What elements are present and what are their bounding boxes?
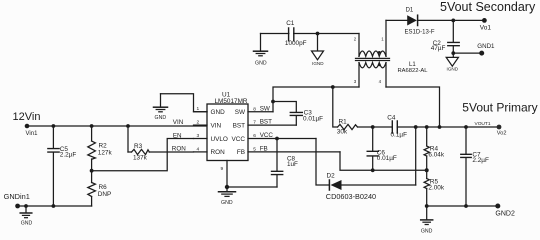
- svg-text:Vo1: Vo1: [480, 24, 492, 31]
- wire primary ground rail: [427, 205, 498, 207]
- svg-text:0.1µF: 0.1µF: [391, 132, 408, 139]
- svg-text:VIN: VIN: [173, 119, 184, 126]
- svg-text:BST: BST: [233, 122, 246, 129]
- ground GND under chip: [219, 187, 236, 206]
- svg-text:GND: GND: [155, 115, 167, 121]
- svg-text:6: 6: [253, 133, 256, 139]
- node Vo2 port: [497, 125, 507, 137]
- junction C2 top: [451, 19, 455, 23]
- wire R1 riser: [333, 87, 338, 127]
- ground GND at input: [20, 206, 32, 227]
- wire EN from UVLO pin to R2/R6 node: [92, 139, 194, 171]
- junction ground symbol tap: [24, 204, 28, 208]
- wire C4 to Vo2: [397, 126, 499, 128]
- ground IGND secondary: [446, 53, 459, 71]
- svg-text:D2: D2: [327, 172, 336, 179]
- capacitor C6 0.01uF: [367, 127, 397, 170]
- resistor R3 137k: [128, 126, 194, 161]
- svg-text:7: 7: [253, 120, 256, 126]
- capacitor C4 0.1uF: [387, 114, 407, 138]
- svg-text:3: 3: [197, 133, 200, 139]
- svg-text:0.01µF: 0.01µF: [377, 155, 397, 162]
- wire D2 anode riser: [415, 127, 417, 185]
- pin 9 pad wire: [221, 161, 228, 188]
- diode D1 ES1D-13-F: [405, 8, 485, 36]
- svg-text:1000pF: 1000pF: [285, 40, 307, 47]
- svg-text:2.2µF: 2.2µF: [60, 151, 77, 158]
- resistor R2 127k: [88, 126, 113, 171]
- svg-text:SW: SW: [235, 109, 246, 116]
- wire input ground rail: [18, 205, 92, 207]
- node GNDin1 port: [4, 192, 30, 208]
- pin 2 VIN stub: [194, 120, 208, 126]
- capacitor C3 0.01uF: [290, 109, 323, 125]
- junction C7 bottom: [464, 204, 468, 208]
- svg-text:4: 4: [197, 146, 200, 152]
- junction D2 riser: [414, 125, 418, 129]
- svg-text:12Vin: 12Vin: [13, 111, 41, 123]
- svg-text:D1: D1: [406, 8, 414, 14]
- wire SW riser to transformer: [273, 87, 359, 112]
- junction C5 bottom: [52, 204, 56, 208]
- svg-text:VCC: VCC: [232, 136, 246, 143]
- node 12Vin port Vin1: [13, 111, 41, 137]
- resistor R1 30k: [337, 118, 358, 135]
- pin 4 RON stub: [194, 146, 208, 152]
- junction C5 top: [52, 124, 56, 128]
- svg-text:GND: GND: [21, 221, 33, 227]
- svg-text:Vo2: Vo2: [497, 131, 507, 137]
- pin 6 VCC stub and label: [248, 132, 316, 139]
- wire transformer pin1 to D1: [386, 19, 407, 21]
- svg-text:0.01µF: 0.01µF: [303, 115, 323, 122]
- junction C6 bottom: [371, 168, 375, 172]
- junction pad/C8 ground node: [225, 185, 229, 189]
- ground GND primary: [421, 206, 433, 234]
- svg-text:127k: 127k: [98, 149, 113, 156]
- junction R3 top: [126, 124, 130, 128]
- capacitor C2 47uF: [431, 20, 460, 53]
- svg-text:BST: BST: [260, 119, 272, 126]
- svg-text:2: 2: [197, 120, 200, 126]
- resistor R4 6.04k: [424, 127, 445, 170]
- svg-text:2: 2: [354, 36, 357, 41]
- wire transformer pin4 to output rail: [386, 87, 440, 127]
- svg-text:IGND: IGND: [312, 61, 324, 66]
- diode D2 CD0603-B0240: [326, 172, 416, 201]
- wire C3 top branch: [273, 102, 296, 113]
- node GND1 port: [477, 43, 495, 56]
- op-amp U1 LM5017MR body: [207, 91, 248, 160]
- svg-text:3: 3: [354, 79, 357, 84]
- svg-text:FB: FB: [237, 149, 245, 156]
- svg-text:VOUT1: VOUT1: [475, 121, 491, 127]
- svg-text:DNP: DNP: [98, 191, 112, 198]
- svg-text:GNDin1: GNDin1: [4, 192, 30, 201]
- wire C8 bottom to pad: [227, 186, 277, 188]
- svg-text:RON: RON: [172, 145, 186, 152]
- junction C1/IGND: [316, 32, 320, 36]
- wire C1 rail: [261, 33, 360, 35]
- svg-text:5Vout Secondary: 5Vout Secondary: [440, 0, 536, 14]
- capacitor C5 2.2uF: [48, 126, 76, 206]
- svg-text:9: 9: [221, 166, 224, 172]
- junction SW rail to R1 riser: [331, 85, 335, 89]
- svg-text:CD0603-B0240: CD0603-B0240: [326, 192, 376, 201]
- capacitor C8 1uF: [272, 139, 299, 188]
- svg-text:47µF: 47µF: [431, 45, 446, 52]
- svg-text:RON: RON: [211, 149, 226, 156]
- svg-text:GND: GND: [421, 228, 433, 234]
- svg-text:VCC: VCC: [260, 132, 274, 139]
- svg-text:C4: C4: [387, 114, 396, 121]
- pin 1 GND stub: [194, 106, 208, 112]
- svg-text:SW: SW: [260, 105, 270, 112]
- junction R2/R6/EN node: [90, 169, 94, 173]
- svg-text:1uF: 1uF: [287, 161, 298, 168]
- svg-text:UVLO: UVLO: [211, 136, 228, 143]
- svg-text:R3: R3: [134, 143, 143, 150]
- junction C6 top: [371, 125, 375, 129]
- ground IGND at primary-secondary bridge: [312, 34, 325, 67]
- junction VCC/C8: [275, 137, 279, 141]
- svg-text:GND: GND: [221, 200, 233, 206]
- wire R1 to C4: [358, 126, 393, 128]
- svg-text:GND: GND: [255, 60, 267, 66]
- junction R4 top: [425, 125, 429, 129]
- wire VCC drop to D2: [316, 139, 329, 186]
- svg-text:5: 5: [253, 147, 256, 153]
- pin 5 FB stub and label: [248, 146, 340, 153]
- svg-text:GND2: GND2: [495, 211, 515, 218]
- svg-text:IGND: IGND: [447, 67, 459, 72]
- svg-text:2.00k: 2.00k: [428, 184, 444, 191]
- junction R5 bottom: [425, 204, 429, 208]
- wire FB drop and feedback rail: [340, 152, 427, 170]
- svg-text:VIN: VIN: [211, 122, 222, 129]
- pin 7 BST stub and label: [248, 119, 296, 126]
- svg-text:6.04k: 6.04k: [428, 152, 444, 159]
- svg-text:RA6822-AL: RA6822-AL: [398, 68, 429, 74]
- svg-text:LM5017MR: LM5017MR: [215, 98, 248, 105]
- svg-text:R1: R1: [339, 118, 348, 125]
- junction transformer secondary feed: [438, 125, 442, 129]
- ground GND above chip: [154, 94, 168, 121]
- node GND2 port: [495, 204, 515, 218]
- svg-text:5Vout Primary: 5Vout Primary: [462, 100, 537, 114]
- pin 8 SW stub and label: [248, 105, 273, 112]
- wire 12Vin rail to VIN pin: [27, 125, 207, 127]
- junction C2 bottom / IGND: [451, 51, 455, 55]
- capacitor C1 1000pF: [285, 20, 307, 47]
- pin 3 UVLO stub: [194, 133, 208, 139]
- svg-text:8: 8: [253, 106, 256, 112]
- svg-text:C1: C1: [286, 20, 295, 27]
- node Vo1 port: [480, 18, 492, 31]
- ground GND at C1: [254, 34, 268, 67]
- svg-text:30k: 30k: [337, 129, 348, 136]
- junction SW to C3 branch: [271, 100, 275, 104]
- svg-text:Vin1: Vin1: [26, 131, 39, 137]
- wire to GND1: [453, 52, 481, 54]
- svg-text:GND1: GND1: [477, 43, 495, 50]
- svg-text:137k: 137k: [133, 154, 148, 161]
- svg-text:EN: EN: [173, 133, 182, 140]
- wire pin1 to GND jog: [161, 94, 208, 112]
- svg-text:2.2µF: 2.2µF: [472, 157, 489, 164]
- capacitor C7 2.2uF: [461, 127, 489, 206]
- svg-text:GND: GND: [211, 109, 226, 116]
- junction R2 top: [90, 124, 94, 128]
- svg-text:ES1D-13-F: ES1D-13-F: [405, 30, 435, 36]
- transformer L1 RA6822-AL: [354, 20, 428, 87]
- resistor R6 DNP: [88, 171, 112, 206]
- svg-text:1: 1: [381, 36, 384, 41]
- junction C7 top: [464, 125, 468, 129]
- junction R4/R5 feedback node: [425, 168, 429, 172]
- resistor R5 2.00k: [424, 170, 445, 206]
- svg-text:4: 4: [379, 79, 382, 84]
- svg-text:FB: FB: [260, 146, 268, 153]
